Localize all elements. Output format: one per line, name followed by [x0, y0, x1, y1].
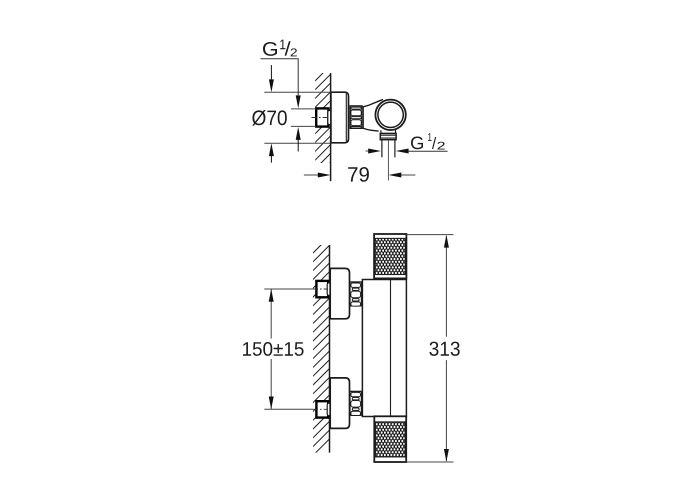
label Ø70 — [252, 110, 287, 126]
outlet coupling nut — [380, 133, 396, 139]
dim 313 — [429, 235, 459, 462]
upper union square — [316, 281, 330, 297]
lower union square — [316, 401, 330, 417]
dim Ø70 top arrow — [269, 65, 274, 92]
mixer body (front view) — [362, 280, 406, 417]
dim 150±15 — [243, 289, 304, 409]
dim 79 — [304, 167, 416, 182]
outlet pipe — [382, 140, 395, 158]
outlet neck — [381, 129, 396, 134]
lower union centerline — [264, 408, 313, 410]
dim 313 extension lines — [406, 235, 453, 462]
handle circles (side view) — [375, 100, 405, 130]
dim Ø70 bottom arrow — [269, 143, 274, 162]
dim G1/2 (outlet) — [366, 133, 448, 153]
escutcheon flange (side view) — [331, 92, 349, 143]
top knurled knob — [374, 234, 406, 278]
pipe centerline extension — [387, 140, 389, 180]
dim Ø70 extension lines — [264, 92, 330, 143]
wall hatching (top view) — [296, 54, 342, 197]
lower escutcheon flange — [330, 378, 349, 429]
upper hex nut — [350, 282, 362, 306]
concealed union square (G1/2 wall connection) — [316, 108, 331, 126]
lower arrow of thread dim — [296, 127, 301, 152]
upper union centerline — [264, 288, 313, 290]
dim G1/2 thread extension lines — [291, 109, 316, 127]
dash-dot centerline of inlet — [312, 117, 332, 119]
wall hatching (bottom view) — [294, 224, 342, 474]
lower hex nut — [350, 391, 362, 415]
hex nut (side view) — [350, 106, 362, 128]
valve body cone — [363, 99, 383, 131]
upper escutcheon flange — [330, 268, 349, 318]
bottom knurled knob — [374, 416, 406, 462]
wall surface line (bottom view) — [329, 245, 331, 453]
wall surface line (top view) — [330, 73, 332, 181]
label G1/2 (wall thread) with leader — [261, 40, 301, 109]
